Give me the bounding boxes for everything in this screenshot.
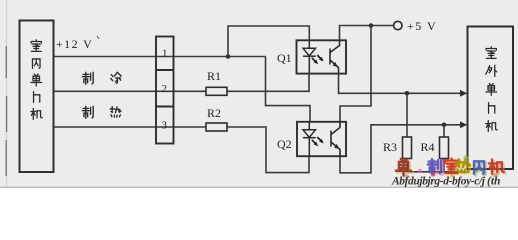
wire Q1 emitter output (339, 73, 462, 93)
wire +5V down to Q2 collector (340, 26, 371, 122)
node junction on +12V (226, 54, 231, 59)
wire +12V down to Q2 anode (266, 57, 311, 122)
svg-text:Abfdujbjrg-d-bfoy-c/j: Abfdujbjrg-d-bfoy-c/j (391, 176, 486, 188)
wire +12V branch up to Q1 anode (228, 26, 309, 57)
wire ground line under R3 R4 (407, 159, 468, 172)
resistor R1 (206, 87, 227, 95)
Q1 phototransistor (330, 41, 340, 74)
watermark row1 halos (397, 159, 505, 177)
indoor label 片 (34, 92, 40, 103)
outdoor label 外 (486, 65, 497, 76)
label cool 制 (82, 72, 93, 84)
node junction R3 (405, 91, 410, 96)
svg-text:2: 2 (162, 83, 168, 95)
connector divider 1 (156, 69, 174, 71)
Q2 photon arrows (312, 137, 324, 146)
svg-text:R1: R1 (207, 69, 221, 83)
svg-text:(th: (th (487, 176, 500, 188)
wire Q1 collector to +5V (340, 26, 394, 41)
label heat 制 (82, 106, 93, 118)
optocoupler U Q2 box (297, 122, 346, 156)
wire heat signal to R2 (54, 126, 207, 128)
indoor label 机 (31, 109, 42, 120)
wire R4 branch (443, 125, 445, 137)
outdoor label 机 (486, 121, 497, 132)
indoor label 单 (31, 74, 42, 86)
watermark speckles (405, 155, 498, 177)
stray tick after +12 V (97, 36, 99, 39)
Q2 phototransistor (331, 122, 340, 156)
wire R2 to Q2 cathode (227, 127, 309, 173)
svg-text:+5 V: +5 V (407, 19, 437, 33)
label heat 热 (110, 107, 121, 117)
connector block (156, 37, 174, 144)
node junction R4 (442, 123, 447, 128)
outdoor label 单 (486, 84, 497, 96)
wire R3 branch (406, 93, 408, 137)
outdoor MCU box (468, 27, 514, 170)
optocoupler U Q1 box (297, 40, 347, 73)
Q2 LED (303, 122, 316, 156)
paper background (0, 0, 518, 188)
bottom scan edge (0, 187, 518, 188)
connector divider 2 (156, 106, 174, 108)
svg-text:Q2: Q2 (277, 137, 292, 151)
indoor label 内 (32, 59, 40, 68)
arrow into outdoor box bottom (460, 121, 467, 128)
resistor R3 (403, 137, 412, 159)
resistor R2 (206, 123, 227, 131)
outdoor label 室 (486, 47, 496, 59)
indoor label 室 (31, 40, 41, 52)
wire Q2 emitter output (340, 125, 462, 173)
svg-text:Q1: Q1 (277, 51, 292, 65)
svg-text:1: 1 (162, 48, 168, 60)
svg-text:3: 3 (162, 120, 168, 132)
outdoor label 片 (489, 103, 495, 114)
terminal +5V (394, 21, 402, 29)
wire R1 to Q1 cathode (227, 73, 309, 91)
node junction on +5V line (369, 23, 374, 28)
Q1 LED (303, 41, 316, 74)
arrow into outdoor box top (460, 90, 467, 97)
svg-text:R3: R3 (383, 140, 397, 154)
svg-text:R2: R2 (207, 106, 221, 120)
svg-text:R4: R4 (421, 140, 435, 154)
label cool 冷 (111, 72, 121, 83)
watermark row1 (396, 158, 504, 175)
resistor R4 (440, 137, 449, 159)
wire +12V main (54, 56, 266, 58)
wire cool signal to R1 (54, 90, 207, 92)
svg-text:+12 V: +12 V (56, 37, 93, 51)
Q1 photon arrows (312, 55, 324, 64)
page fold line left edge (6, 0, 8, 188)
indoor MCU box (20, 21, 54, 173)
